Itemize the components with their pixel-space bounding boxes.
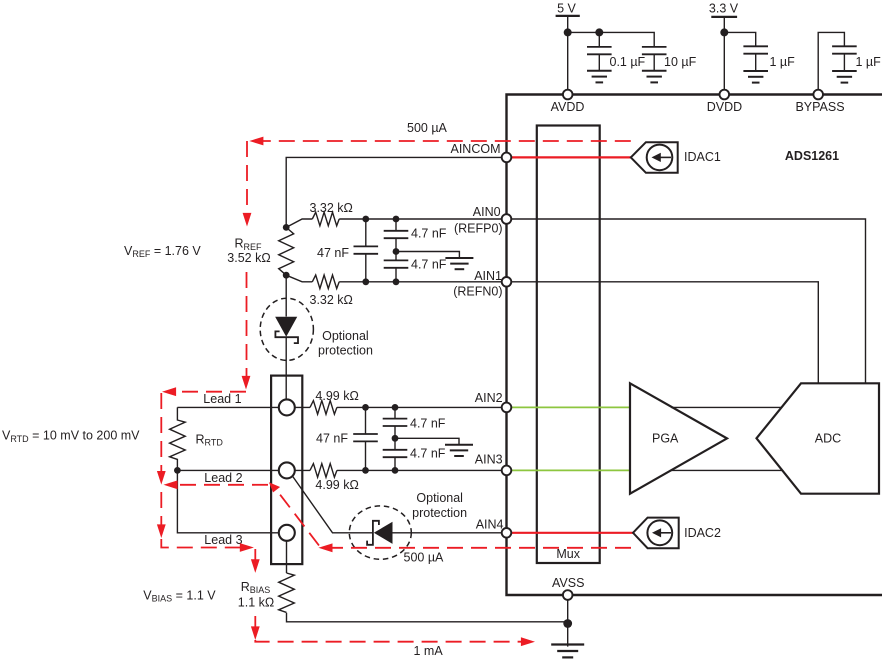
dashed circle protection 1 [260,298,313,360]
svg-text:4.7 nF: 4.7 nF [410,417,446,431]
junction cap 0.1uF [595,28,603,36]
svg-text:ADS1261: ADS1261 [785,149,839,163]
arrowhead down (left, lead3) [157,524,166,538]
wire AIN3 line with 4.99k [295,469,507,471]
capacitor 47nF (input) [353,407,378,470]
PGA triangle [630,383,727,493]
IDAC1 symbol [631,142,678,173]
capacitor 4.7nF (input top) [383,407,408,438]
ground (main) [551,645,584,658]
red wire AINCOM to IDAC1 [507,156,631,158]
svg-text:protection: protection [318,343,373,357]
wire AIN1 line (3.32k to ADC reference N) [286,275,818,383]
red dashed horizontal lead1 [176,391,246,393]
svg-text:500 µA: 500 µA [404,550,445,564]
wire 3.3V to DVDD [723,17,725,95]
red dashed vertical RBIAS bottom [254,616,256,627]
capacitor 4.7nF (ref top) [384,219,409,252]
svg-text:AVSS: AVSS [552,576,584,590]
supply 5V bar [556,15,580,17]
pin AIN4 [502,528,512,538]
TVS diode D2 (optional protection) [367,521,392,545]
svg-text:AINCOM: AINCOM [451,142,501,156]
svg-text:IDAC1: IDAC1 [684,150,721,164]
pin AINCOM [502,153,512,163]
pin AIN2 [502,403,512,413]
arrowhead down (left, lead2) [157,471,166,485]
resistor RREF [279,227,294,275]
arrowhead down (RBIAS bottom) [251,626,260,640]
ground (ref filter) [445,258,473,269]
IDAC2 symbol [633,518,679,549]
wire Lead 2 [177,469,278,471]
svg-text:AIN2: AIN2 [475,391,503,405]
ADC block [757,383,880,493]
svg-text:protection: protection [412,506,467,520]
wire AIN0 line (3.32k to ADC reference P) [286,219,865,383]
red dashed vertical left (lead1 to lead2) [160,393,162,471]
svg-text:1 µF: 1 µF [856,55,882,69]
svg-text:47 nF: 47 nF [316,431,348,445]
capacitor 1uF (BYPASS) [832,46,857,71]
green wire AIN3 to PGA [507,469,631,471]
capacitor 10uF [642,47,667,71]
svg-text:(REFN0): (REFN0) [453,285,502,299]
ground (0.1uF) [587,71,612,83]
junction 3.3V [720,28,728,36]
svg-text:BYPASS: BYPASS [795,100,844,114]
node dot ground [563,619,572,628]
svg-text:4.7 nF: 4.7 nF [410,447,446,461]
arrowhead diagonal (lead2) [269,482,280,492]
svg-text:ADC: ADC [815,431,841,445]
svg-text:500 µA: 500 µA [407,121,448,135]
wire terminal2 to AIN4 [293,476,507,533]
pin AIN3 [502,466,512,476]
wire RREF bottom to protection [285,275,287,316]
capacitor 1uF (DVDD) [743,46,768,71]
wire 5V to AVDD [567,16,569,95]
dashed circle protection 2 [349,506,411,559]
svg-text:1 mA: 1 mA [414,644,444,658]
pin DVDD [720,90,730,100]
terminal circle 3 [279,525,295,541]
arrowhead down (VREF) [243,213,252,227]
svg-text:3.32 kΩ: 3.32 kΩ [310,293,353,307]
svg-text:Mux: Mux [556,547,580,561]
red dashed diagonal (IDAC2 to lead2) [276,489,319,545]
terminal circle 1 [279,399,295,415]
svg-text:3.52 kΩ: 3.52 kΩ [227,251,270,265]
wire protection to connector [285,337,287,399]
svg-text:AIN1: AIN1 [474,269,502,283]
TVS diode D1 (optional protection) [275,317,298,343]
wire 5V branch to caps [568,32,655,46]
svg-text:5 V: 5 V [557,2,576,16]
red dashed vertical VREF [246,141,248,213]
resistor 4.99k (bottom) [310,464,337,478]
terminal circle 2 [279,462,295,478]
node dot RREF top [283,224,290,231]
wires PGA to ADC [671,407,783,470]
svg-text:AVDD: AVDD [551,100,585,114]
supply 3.3V bar [711,16,737,18]
node dots 47nF input [362,404,369,411]
red dashed horizontal 1mA [255,640,522,642]
wire to ground (input filter) [395,438,459,445]
node dots 47nF ref [362,216,369,223]
svg-text:4.7 nF: 4.7 nF [411,227,447,241]
green wire AIN2 to PGA [507,406,631,408]
node dot lead2 [174,467,181,474]
capacitor 4.7nF (ref bottom) [384,252,409,282]
RTD terminal block [271,376,302,564]
resistor 4.99k (top) [310,401,337,415]
arrowhead down (to lead1) [242,376,251,390]
red dashed current path IDAC2 (horizontal at AIN4) [332,547,631,549]
svg-text:4.99 kΩ: 4.99 kΩ [315,389,358,403]
svg-text:Lead 1: Lead 1 [203,392,241,406]
red wire AIN4 to IDAC2 [507,532,634,534]
arrowhead right (RBIAS corner) [240,543,254,552]
svg-text:Optional: Optional [322,329,369,343]
pin AVDD [563,90,573,100]
wire AVSS to ground [567,595,569,647]
svg-text:10 µF: 10 µF [664,55,697,69]
junction 5V [564,28,572,36]
arrowhead left (lead1) [162,387,176,396]
capacitor 4.7nF (input bottom) [383,438,408,470]
ground (input filter) [445,445,473,456]
arrowhead left (lead2 merge) [164,480,178,489]
svg-text:AIN0: AIN0 [473,205,501,219]
pin AVSS [563,590,573,600]
ground (DVDD cap) [743,71,768,83]
red dashed vertical left (lead2 to lead3) [160,492,162,525]
red dashed corner lead3 to RBIAS [161,539,240,548]
ground (10uF) [642,71,667,83]
node dot RREF bottom [283,272,290,279]
node dots 4.7nF ref [393,216,400,223]
svg-text:4.7 nF: 4.7 nF [411,258,447,272]
ground (BYPASS cap) [832,71,857,83]
wire AIN2 line with 4.99k [295,406,507,408]
pin AIN1 [502,277,512,287]
wire Lead 1 [177,406,278,408]
wire RBIAS to ground node [287,541,568,622]
wire to ground (ref filter) [396,252,459,259]
pin AIN0 [502,214,512,224]
svg-text:DVDD: DVDD [707,100,742,114]
svg-text:Lead 2: Lead 2 [204,471,242,485]
chip ADS1261 outline [507,95,882,596]
arrowhead right (1mA) [521,637,535,646]
pin BYPASS [813,90,823,100]
svg-text:1.1 kΩ: 1.1 kΩ [238,596,274,610]
capacitor 0.1uF [587,32,612,70]
svg-text:3.3 V: 3.3 V [709,2,739,16]
resistor 3.32k (top) [312,212,339,226]
svg-text:(REFP0): (REFP0) [454,222,503,236]
red dashed vertical RBIAS top [254,549,256,560]
svg-text:47 nF: 47 nF [317,246,349,260]
resistor 3.32k (bottom) [312,275,339,289]
node dots 4.7nF input [392,404,399,411]
svg-text:AIN4: AIN4 [476,517,504,531]
resistor RRTD [170,407,186,470]
svg-text:Lead 3: Lead 3 [204,533,242,547]
wire BYPASS to cap [818,32,844,94]
arrowhead left (IDAC2) [318,543,332,552]
svg-text:1 µF: 1 µF [770,55,796,69]
capacitor 47nF (reference) [354,219,379,282]
mux block [537,126,600,564]
svg-text:4.99 kΩ: 4.99 kΩ [315,478,358,492]
wire AINCOM to RREF node [286,157,506,227]
wire Lead2 to Lead3 [177,470,278,532]
red dashed current path IDAC1 (horizontal top) [251,140,631,142]
svg-text:Optional: Optional [416,491,463,505]
red dashed horizontal (lead2 merge) [177,484,268,486]
svg-text:PGA: PGA [652,431,679,445]
svg-text:IDAC2: IDAC2 [684,526,721,540]
resistor RBIAS [279,573,295,612]
wire 3.3V branch to cap [724,32,755,45]
red dashed vertical RREF to lead1 [246,272,248,376]
svg-text:0.1 µF: 0.1 µF [610,55,646,69]
arrowhead left (top corner) [249,137,263,146]
svg-text:3.32 kΩ: 3.32 kΩ [310,201,353,215]
svg-text:AIN3: AIN3 [475,453,503,467]
arrowhead down (RBIAS) [251,559,260,573]
